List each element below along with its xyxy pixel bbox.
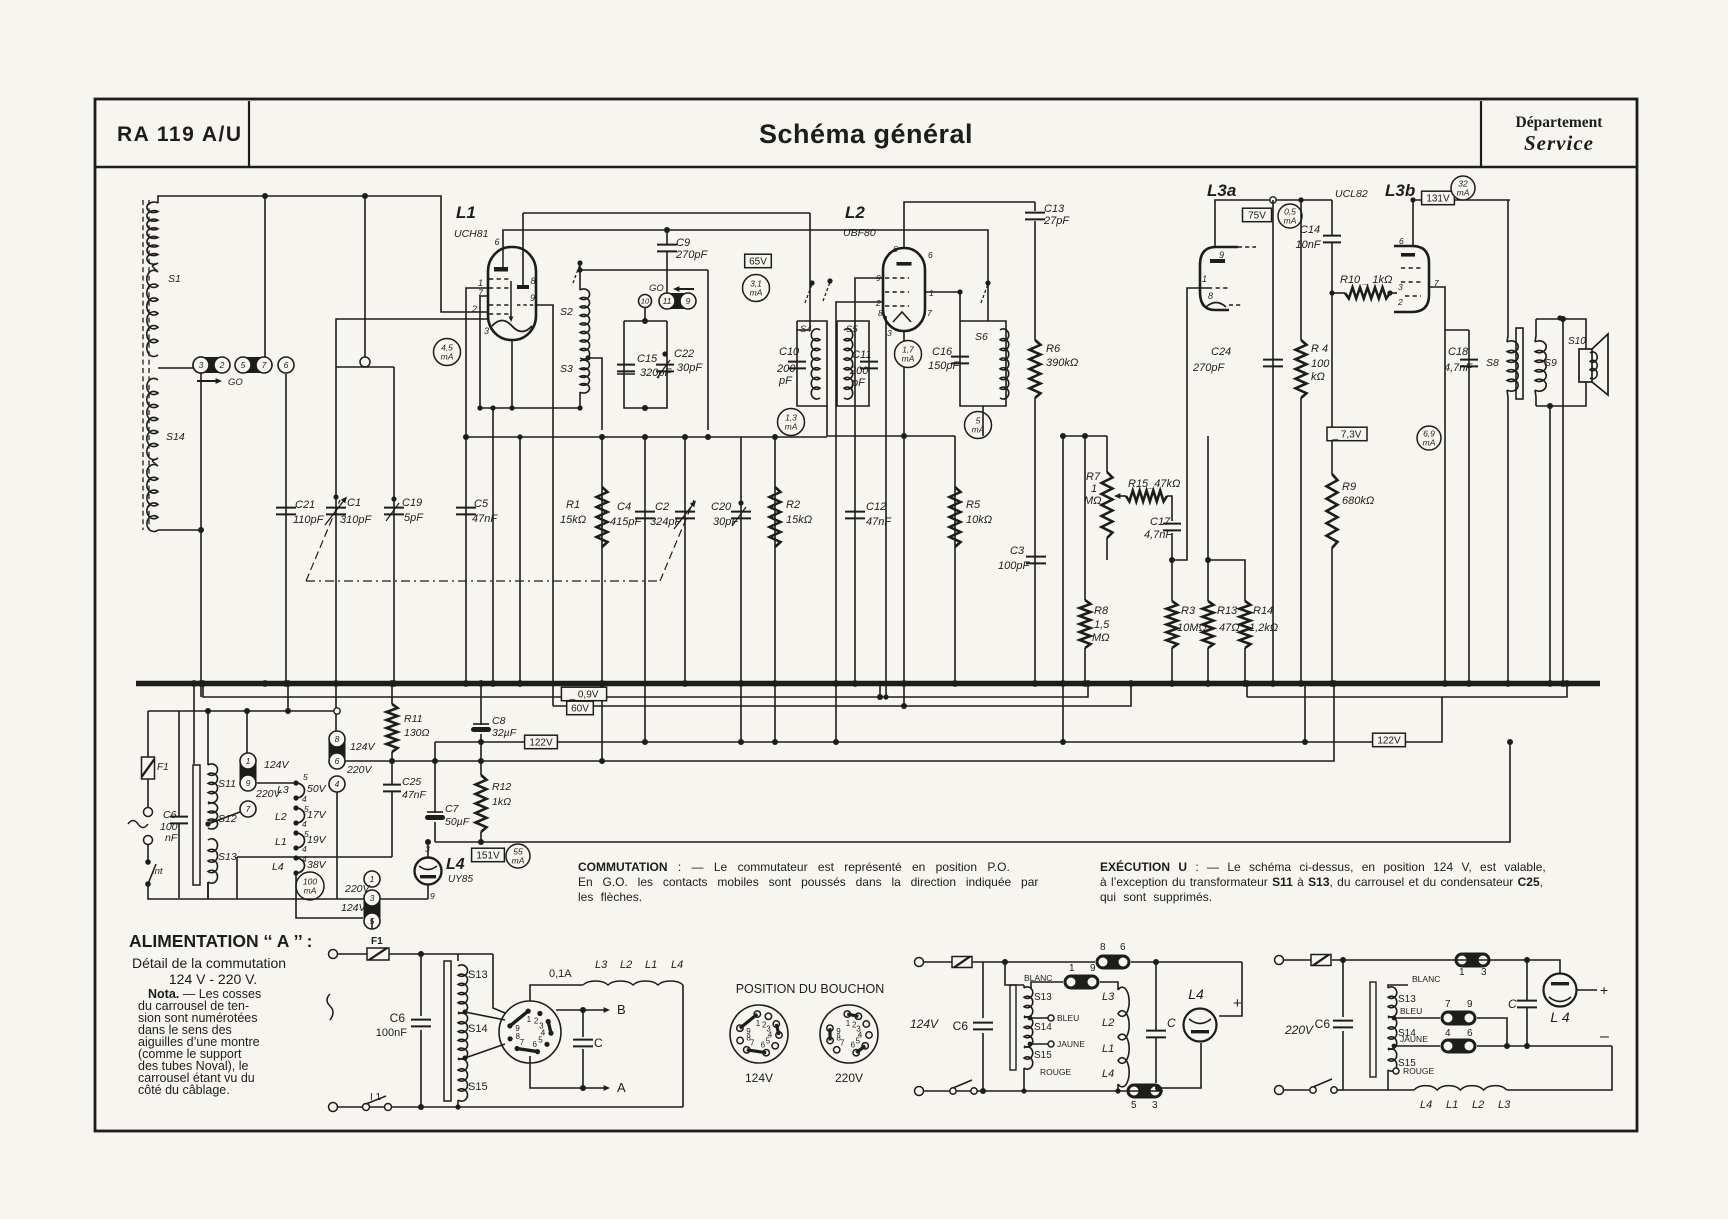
- bus node: [1331, 680, 1338, 687]
- svg-text:L4: L4: [1188, 986, 1204, 1002]
- svg-text:C19: C19: [402, 497, 422, 509]
- label C10: [776, 346, 800, 387]
- svg-text:R12: R12: [492, 781, 511, 793]
- svg-text:L2: L2: [1472, 1099, 1484, 1111]
- svg-text:C12: C12: [866, 501, 886, 513]
- svg-text:mA: mA: [304, 886, 317, 896]
- svg-text:124 V - 220 V.: 124 V - 220 V.: [169, 971, 257, 987]
- svg-text:680kΩ: 680kΩ: [1342, 495, 1374, 507]
- node: [1524, 957, 1530, 963]
- label C13: [1043, 203, 1070, 227]
- svg-text:11: 11: [663, 296, 672, 306]
- wire: [1171, 648, 1173, 683]
- voltage 131V: [1422, 191, 1455, 205]
- label C sub: [1167, 1016, 1176, 1030]
- label C20: [711, 501, 739, 528]
- transformer core 220: [1370, 982, 1376, 1077]
- wire pin9: [855, 278, 883, 683]
- switch mark S4: [805, 280, 815, 303]
- wire 761 line: [336, 683, 1334, 761]
- svg-text:Département: Département: [1516, 114, 1604, 131]
- svg-text:C6: C6: [163, 809, 177, 821]
- bus node: [1560, 680, 1567, 687]
- svg-text:+: +: [1600, 982, 1608, 998]
- bus node: [391, 680, 398, 687]
- carrousel node: [293, 795, 298, 800]
- coil labels sub: [1102, 991, 1115, 1080]
- coil S8: [1507, 341, 1518, 391]
- svg-text:S3: S3: [560, 363, 573, 375]
- node: [1153, 959, 1159, 965]
- label UBF80: [843, 227, 876, 239]
- svg-text:S13: S13: [1398, 994, 1416, 1005]
- svg-text:Int: Int: [152, 866, 163, 877]
- connector blob 1-3 220: [1455, 953, 1491, 968]
- node: [1504, 1043, 1510, 1049]
- wire: [1030, 1017, 1048, 1019]
- bus node: [1442, 680, 1449, 687]
- ground bus: [136, 681, 1600, 687]
- carrousel node: [293, 780, 298, 785]
- tank box C15/C22: [624, 321, 667, 408]
- bus node: [1298, 680, 1305, 687]
- svg-text:7: 7: [927, 308, 932, 318]
- label S11: [218, 778, 236, 790]
- wire: [1100, 982, 1118, 990]
- wire: [336, 366, 365, 368]
- svg-text:7: 7: [246, 804, 251, 814]
- wire: [1394, 1017, 1440, 1019]
- meter 32mA: [1451, 176, 1475, 200]
- node: [599, 758, 605, 764]
- svg-text:C24: C24: [1211, 346, 1231, 358]
- label S14 detail: [468, 1023, 488, 1035]
- wire: [1106, 538, 1108, 560]
- svg-text:L3: L3: [595, 959, 608, 971]
- plus: [1233, 995, 1242, 1012]
- svg-text:9: 9: [530, 293, 535, 303]
- wire: [391, 752, 393, 761]
- tube L4 power: [415, 858, 442, 885]
- connector blob 1-9: [240, 753, 257, 791]
- svg-text:1: 1: [527, 1015, 532, 1024]
- svg-text:pF: pF: [778, 375, 793, 387]
- svg-text:4: 4: [335, 779, 340, 789]
- label R6: [1046, 343, 1078, 369]
- label R5: [966, 499, 992, 526]
- wire: [1131, 961, 1242, 963]
- terminal: [329, 950, 338, 959]
- terminal 10: [639, 295, 652, 308]
- label 220V: [344, 883, 371, 895]
- svg-text:C15: C15: [637, 353, 658, 365]
- svg-text:C5: C5: [474, 498, 489, 510]
- connector blob 5-7: [235, 357, 272, 373]
- label JAUNE 220: [1400, 1034, 1428, 1044]
- bus node: [490, 680, 497, 687]
- wire: [1215, 200, 1332, 247]
- svg-text:2: 2: [875, 298, 881, 308]
- IF tank box S4: [797, 321, 827, 406]
- svg-text:415pF: 415pF: [610, 516, 642, 528]
- connector blob 4-6 220: [1441, 1039, 1477, 1054]
- svg-text:R7: R7: [1086, 471, 1101, 483]
- node: [1021, 1088, 1026, 1093]
- ac symbol: [327, 994, 333, 1020]
- terminal: [915, 1087, 924, 1096]
- bus node: [833, 680, 840, 687]
- svg-text:200: 200: [849, 365, 869, 377]
- svg-text:MΩ: MΩ: [1092, 632, 1110, 644]
- svg-text:100: 100: [1311, 358, 1330, 370]
- wire: [1342, 1031, 1344, 1090]
- bus node: [852, 680, 859, 687]
- node: [1155, 1085, 1161, 1091]
- wire: [1084, 436, 1086, 600]
- label C11: [849, 349, 871, 389]
- svg-text:8: 8: [530, 276, 535, 286]
- dept text: [1516, 114, 1604, 131]
- meter 3.1mA: [743, 275, 770, 302]
- coil S11: [208, 764, 218, 803]
- terminal 6: [278, 357, 294, 373]
- coil S6: [1000, 329, 1009, 399]
- svg-text:3: 3: [887, 328, 892, 338]
- resistor R9: [1327, 474, 1338, 548]
- capacitor C1 variable: [325, 494, 347, 525]
- terminal 1b: [364, 871, 380, 887]
- svg-text:6: 6: [761, 1040, 766, 1049]
- svg-text:1: 1: [756, 1019, 761, 1028]
- capacitor C2 variable: [674, 501, 696, 530]
- svg-text:S6: S6: [975, 331, 988, 343]
- node: [1302, 739, 1308, 745]
- node: [642, 434, 648, 440]
- wire: [158, 529, 201, 531]
- wire tap: [465, 1012, 505, 1020]
- capacitor C3: [1026, 557, 1046, 564]
- meter 100mA: [296, 872, 324, 900]
- label C2: [650, 501, 682, 528]
- label C6 sub: [953, 1019, 969, 1033]
- ac symbol: [128, 821, 148, 828]
- switch mark S5: [823, 278, 833, 301]
- wire: [1331, 243, 1333, 474]
- svg-text:1: 1: [1202, 274, 1207, 284]
- wire: [1477, 1018, 1507, 1046]
- svg-text:S5: S5: [846, 324, 858, 335]
- svg-text:320pF: 320pF: [640, 367, 672, 379]
- svg-text:S4: S4: [800, 324, 812, 335]
- node: [980, 1088, 986, 1094]
- node: [205, 821, 210, 826]
- wire: [207, 882, 209, 898]
- wire: [338, 953, 367, 955]
- label L4 220: [1550, 1009, 1569, 1025]
- bus node: [1060, 680, 1067, 687]
- svg-text:C9: C9: [676, 237, 690, 249]
- node: [1060, 739, 1066, 745]
- coils sub L3-L4: [1118, 987, 1129, 1087]
- svg-text:kΩ: kΩ: [1311, 371, 1325, 383]
- connector blob 7-9 220: [1441, 1011, 1477, 1026]
- wire rouge: [1023, 1068, 1025, 1091]
- svg-text:MΩ: MΩ: [1084, 495, 1102, 507]
- svg-text:mA: mA: [785, 422, 798, 432]
- svg-text:47nF: 47nF: [402, 789, 427, 801]
- wire: [982, 962, 984, 1018]
- wire bottom: [338, 1106, 683, 1108]
- wire: [365, 366, 394, 368]
- wire core ground: [193, 683, 195, 764]
- wire: [1300, 200, 1302, 340]
- junction ring: [334, 708, 340, 714]
- svg-text:I 1: I 1: [370, 1092, 382, 1103]
- svg-text:3: 3: [1398, 282, 1403, 292]
- label C9: [675, 237, 708, 261]
- node: [478, 758, 484, 764]
- title Schema general: [759, 119, 973, 149]
- voltage 122V right: [1373, 733, 1406, 747]
- wire: [879, 683, 881, 697]
- svg-text:C11: C11: [852, 349, 871, 361]
- coil S14: [147, 378, 158, 531]
- transformer core sub: [1010, 985, 1016, 1070]
- svg-text:8: 8: [878, 308, 883, 318]
- svg-text:122V: 122V: [529, 738, 553, 749]
- wire h436b: [1063, 435, 1107, 437]
- svg-text:F1: F1: [157, 762, 169, 773]
- label R8: [1092, 605, 1110, 644]
- label C14: [1295, 224, 1321, 251]
- node: [1557, 315, 1562, 320]
- svg-text:mA: mA: [750, 288, 763, 298]
- connector blob 8-6: [329, 731, 346, 769]
- wire: [1332, 292, 1345, 294]
- svg-text:S11: S11: [218, 778, 236, 790]
- wire pin7: [1429, 287, 1445, 683]
- meter 4.5mA: [434, 339, 461, 366]
- svg-text:131V: 131V: [1426, 194, 1450, 205]
- svg-text:L4: L4: [272, 861, 284, 873]
- capacitor C25: [383, 785, 401, 792]
- node: [1507, 739, 1513, 745]
- svg-text:4: 4: [302, 819, 307, 829]
- coil S15 sub: [1024, 1047, 1033, 1069]
- svg-text:R6: R6: [1046, 343, 1061, 355]
- svg-text:38V: 38V: [307, 859, 327, 871]
- svg-text:15kΩ: 15kΩ: [786, 514, 812, 526]
- electrolytic C8: [471, 724, 491, 732]
- node: [418, 1104, 424, 1110]
- node: [462, 1055, 467, 1060]
- meter 1.3mA: [778, 409, 805, 436]
- connector blob 11-9: [659, 293, 696, 309]
- svg-text:10nF: 10nF: [1295, 239, 1321, 251]
- label C16: [928, 346, 960, 372]
- resistor R4: [1296, 340, 1307, 398]
- svg-text:C17: C17: [1150, 516, 1171, 528]
- wire right 0.9V: [1247, 683, 1567, 697]
- svg-text:32µF: 32µF: [492, 727, 517, 739]
- label C12: [866, 501, 892, 528]
- capacitor C20 variable: [731, 500, 751, 526]
- bus node: [198, 680, 205, 687]
- pin labels: [1100, 942, 1126, 953]
- wire: [434, 742, 436, 813]
- svg-text:côté du câblage.: côté du câblage.: [138, 1083, 230, 1097]
- wire: [1332, 959, 1454, 961]
- svg-text:Détail de la commutation: Détail de la commutation: [132, 955, 286, 971]
- wire: [924, 961, 952, 963]
- label BLANC: [1024, 973, 1052, 983]
- wire 151V line: [435, 742, 1510, 842]
- svg-text:100nF: 100nF: [376, 1027, 407, 1039]
- svg-text:C14: C14: [1300, 224, 1320, 236]
- svg-text:30pF: 30pF: [713, 516, 739, 528]
- svg-text:COMMUTATION : — Le commutateur: COMMUTATION : — Le commutateur est repré…: [578, 860, 1010, 874]
- svg-text:UCH81: UCH81: [454, 228, 488, 240]
- L3b plate 6: [1399, 236, 1415, 257]
- node: [478, 739, 484, 745]
- node: [490, 405, 495, 410]
- svg-text:C20: C20: [711, 501, 732, 513]
- terminal: [1275, 1086, 1284, 1095]
- svg-text:L1: L1: [645, 959, 657, 971]
- wire: [1031, 982, 1063, 988]
- svg-text:mA: mA: [1457, 188, 1470, 198]
- capacitor C12: [845, 512, 865, 519]
- L3a pin labels: [1202, 250, 1224, 301]
- header divider right: [1480, 101, 1482, 167]
- wire: [465, 437, 467, 683]
- carrousel node: [293, 820, 298, 825]
- svg-text:9: 9: [515, 1024, 520, 1033]
- label C 220: [1508, 997, 1517, 1011]
- svg-text:9: 9: [1090, 963, 1096, 974]
- wire: [336, 792, 338, 899]
- terminal jaune: [1048, 1041, 1054, 1047]
- svg-text:3: 3: [199, 360, 204, 370]
- wire: [1284, 959, 1311, 961]
- wire: [420, 1030, 422, 1107]
- node: [1524, 1043, 1530, 1049]
- svg-text:4,7nF: 4,7nF: [1144, 529, 1173, 541]
- L1 grids: [489, 279, 513, 322]
- svg-text:B: B: [617, 1002, 626, 1017]
- L1 pin labels: [471, 278, 489, 336]
- wire 60V line: [553, 683, 1131, 706]
- carrousel node: [293, 845, 298, 850]
- wire: [178, 711, 180, 816]
- plus 220: [1600, 982, 1608, 998]
- node: [198, 527, 204, 533]
- resistor R15: [1126, 491, 1167, 502]
- svg-text:pF: pF: [851, 377, 866, 389]
- wire: [1172, 436, 1187, 560]
- label C18: [1444, 346, 1473, 374]
- wire: [1208, 560, 1245, 601]
- wire: [1507, 1046, 1612, 1090]
- switch I1: [363, 1092, 392, 1111]
- svg-text:qui sont supprimés.: qui sont supprimés.: [1100, 890, 1212, 904]
- tube L1: [488, 247, 536, 340]
- svg-text:L3: L3: [1102, 991, 1115, 1003]
- node: [455, 1104, 460, 1109]
- text nota: [138, 987, 261, 1097]
- svg-text:les flèches.: les flèches.: [578, 890, 642, 904]
- svg-text:1,5: 1,5: [1094, 619, 1110, 631]
- wire horizontal: [466, 436, 827, 438]
- label C6 220: [1315, 1017, 1331, 1031]
- resistor R5: [950, 487, 961, 547]
- wire h436: [827, 435, 955, 437]
- svg-text:1: 1: [246, 756, 251, 766]
- svg-text:R5: R5: [966, 499, 981, 511]
- L2 cathode: [893, 312, 911, 322]
- connector blob 1-9 sub: [1064, 975, 1100, 990]
- capacitor C5: [456, 508, 476, 515]
- wire: [147, 845, 149, 862]
- svg-text:270pF: 270pF: [1192, 362, 1225, 374]
- L2 grids: [885, 278, 909, 306]
- tube L3b half: [1394, 246, 1429, 312]
- svg-text:1: 1: [1459, 967, 1465, 978]
- wire: [393, 367, 395, 683]
- svg-text:19V: 19V: [307, 834, 327, 846]
- wire: [523, 212, 810, 214]
- capacitor C24: [1263, 360, 1283, 367]
- coil S14 220: [1388, 1017, 1397, 1049]
- node: [1387, 290, 1392, 295]
- svg-text:4: 4: [302, 844, 307, 854]
- wire tap: [588, 358, 602, 430]
- wire blanc: [1005, 962, 1024, 985]
- voltage 151V: [472, 848, 505, 862]
- wire: [1445, 329, 1469, 331]
- svg-text:47nF: 47nF: [866, 516, 892, 528]
- meter 6.9mA: [1417, 426, 1441, 450]
- svg-text:F1: F1: [371, 936, 383, 947]
- label C4: [610, 501, 642, 528]
- svg-text:R14: R14: [1253, 605, 1273, 617]
- bus node: [191, 680, 198, 687]
- svg-text:130Ω: 130Ω: [404, 727, 430, 739]
- svg-text:60V: 60V: [571, 704, 589, 715]
- speaker S10: [1579, 334, 1608, 395]
- wire: [1390, 292, 1397, 294]
- label ROUGE: [1040, 1067, 1072, 1077]
- border frame: [95, 99, 1637, 1131]
- wire: [389, 953, 493, 955]
- coil S12: [208, 803, 218, 829]
- svg-text:6: 6: [284, 360, 289, 370]
- svg-text:124V: 124V: [350, 741, 376, 753]
- svg-text:5pF: 5pF: [404, 512, 424, 524]
- meter 0.5mA: [1278, 204, 1302, 228]
- bus node: [1082, 680, 1089, 687]
- L3b pin labels: [1397, 278, 1439, 307]
- voltage 122V: [525, 735, 558, 749]
- wire: [147, 711, 149, 757]
- svg-text:10kΩ: 10kΩ: [966, 514, 992, 526]
- coil labels 220: [1420, 1099, 1511, 1111]
- coil S13 sub: [1024, 987, 1033, 1017]
- svg-text:324pF: 324pF: [650, 516, 682, 528]
- service text: [1524, 131, 1594, 155]
- pin labels: [1459, 967, 1487, 978]
- bus node: [1466, 680, 1473, 687]
